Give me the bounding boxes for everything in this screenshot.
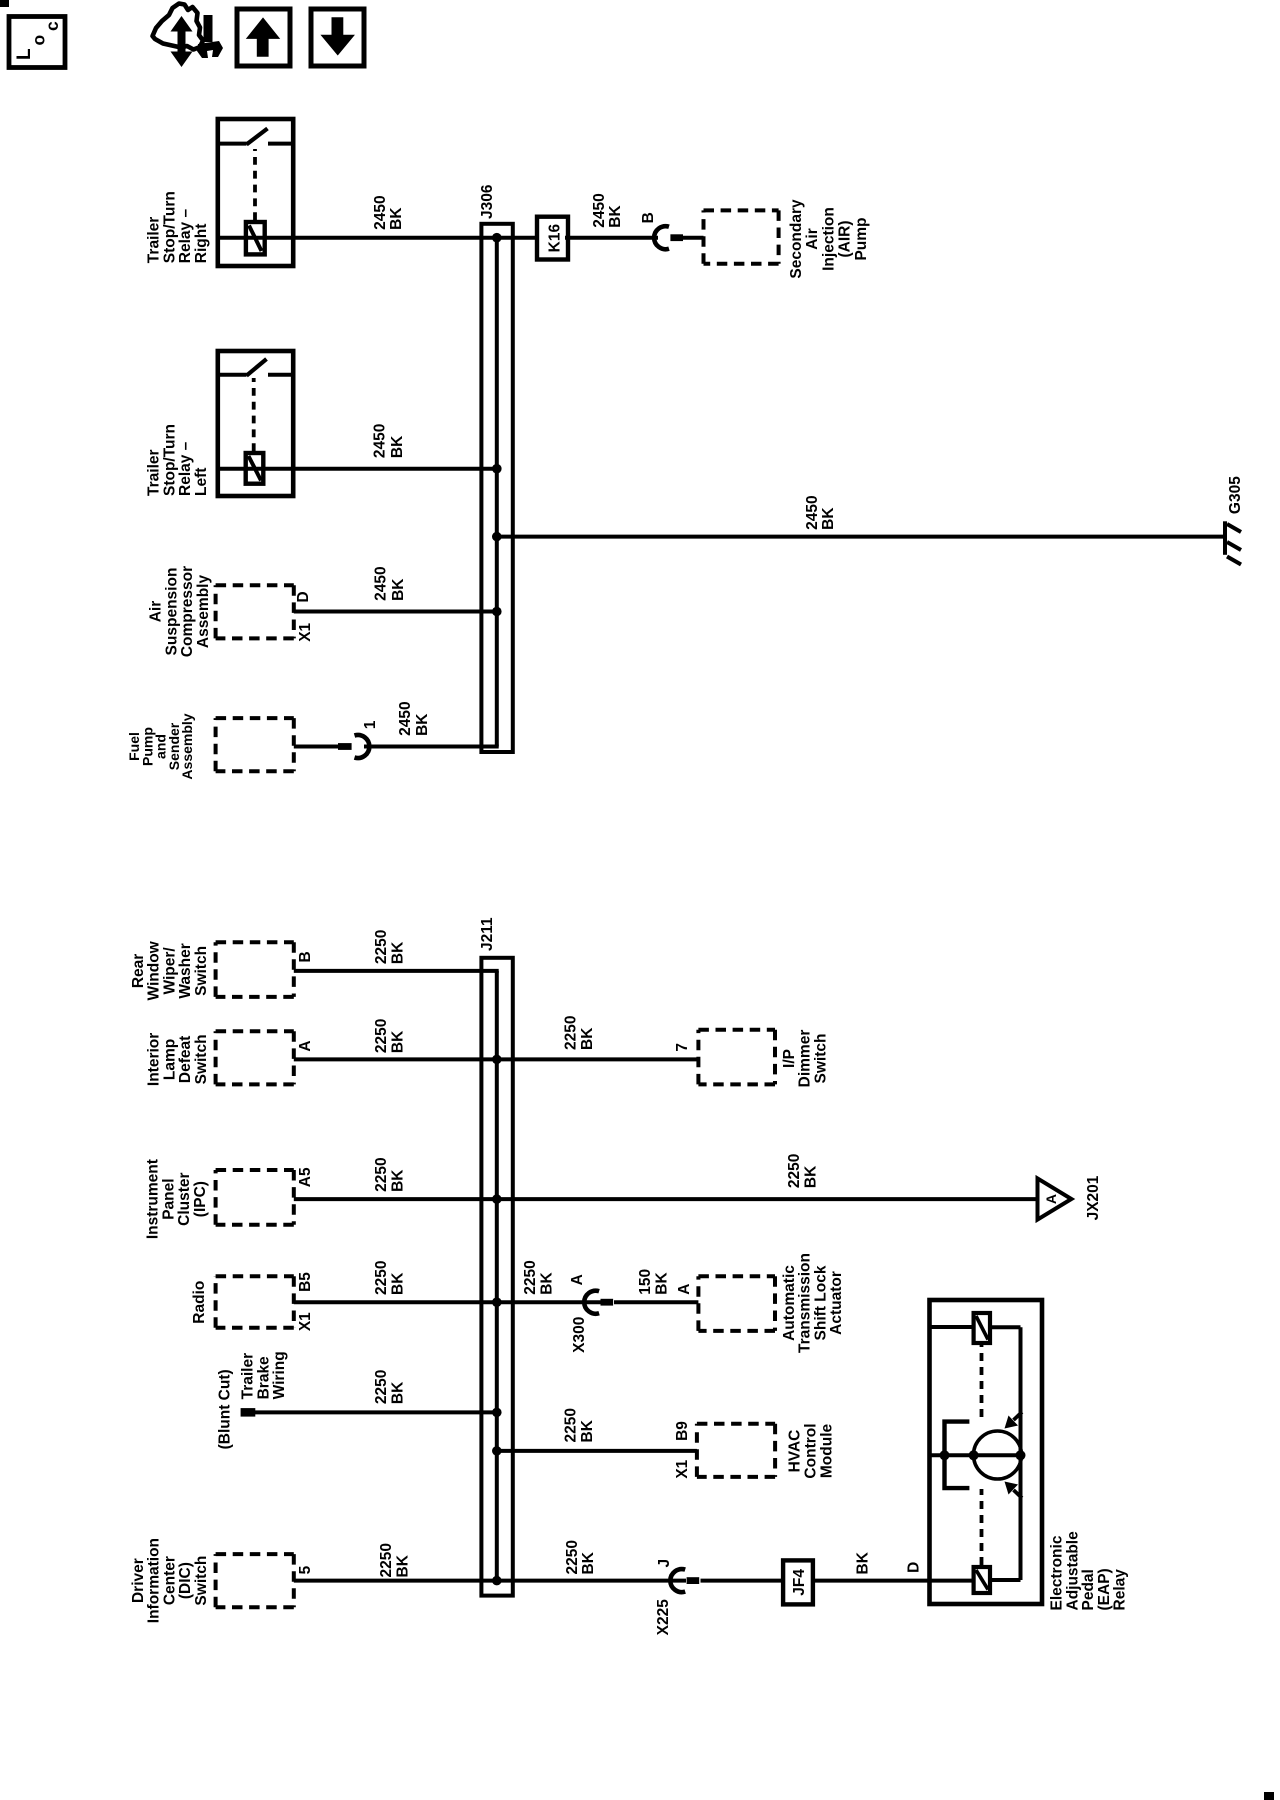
relay left contact line	[218, 373, 247, 377]
splice pack J211 outer box	[481, 958, 512, 1596]
relay Trailer Stop/Turn Relay - Left box	[218, 351, 293, 496]
svg-text:BK: BK	[395, 1554, 412, 1577]
wire 2250 BK J211 to HVAC control module	[497, 1449, 697, 1453]
svg-text:J: J	[656, 1559, 673, 1568]
node J211-DIC junction	[492, 1576, 502, 1586]
node J211 blunt cut junction	[492, 1408, 502, 1418]
svg-text:2250: 2250	[786, 1154, 803, 1188]
svg-text:Driver: Driver	[130, 1558, 147, 1603]
component Instrument Panel Cluster (IPC) box	[216, 1170, 294, 1225]
svg-text:(DIC): (DIC)	[177, 1562, 194, 1599]
svg-text:Pedal: Pedal	[1080, 1569, 1097, 1610]
svg-text:B: B	[297, 951, 314, 962]
svg-text:BK: BK	[854, 1551, 871, 1574]
svg-text:K16: K16	[547, 224, 564, 253]
svg-text:BK: BK	[579, 1027, 596, 1050]
svg-text:2250: 2250	[373, 1157, 390, 1191]
svg-text:Control: Control	[803, 1423, 820, 1478]
svg-text:Window: Window	[146, 940, 163, 1000]
svg-text:BK: BK	[607, 205, 624, 228]
node J211 radio junction	[492, 1297, 502, 1307]
svg-text:Trailer: Trailer	[146, 449, 163, 496]
svg-text:2450: 2450	[397, 701, 414, 735]
relay right switch blade	[247, 129, 268, 145]
node J306 ground junction	[492, 532, 502, 542]
svg-text:2450: 2450	[804, 495, 821, 529]
wire 2250 BK J211 to X300	[497, 1300, 601, 1304]
svg-text:Switch: Switch	[193, 1034, 210, 1084]
component Driver Information Center (DIC) Switch box	[216, 1554, 294, 1607]
svg-text:Secondary: Secondary	[788, 199, 805, 279]
node J306 relay left junction	[492, 464, 502, 474]
node J306 air suspension junction	[492, 607, 502, 617]
adjust icon (outline with up-down arrow and wrench)	[153, 4, 204, 50]
svg-text:2250: 2250	[373, 1261, 390, 1295]
svg-text:(AIR): (AIR)	[837, 220, 854, 257]
svg-text:Information: Information	[146, 1538, 163, 1623]
wire 2250 BK J211 to JX201	[497, 1197, 1038, 1201]
svg-text:Stop/Turn: Stop/Turn	[161, 191, 178, 263]
inline connector X300	[584, 1291, 599, 1314]
svg-text:Electronic: Electronic	[1049, 1535, 1066, 1610]
EAP relay bottom rail	[1019, 1327, 1023, 1580]
inline connector X225	[670, 1569, 685, 1592]
wire 2250 BK J211 to I/P dimmer switch	[497, 1057, 699, 1061]
fuse K16 box	[537, 217, 568, 260]
down arrow button	[311, 9, 364, 66]
svg-text:7: 7	[674, 1043, 691, 1052]
inline connector at AIR pump	[654, 226, 669, 249]
splice pack J306 bus line	[495, 237, 499, 747]
EAP relay emitter arrow right	[1014, 1412, 1023, 1420]
node J306 relay right junction	[492, 233, 502, 243]
svg-text:Defeat: Defeat	[177, 1036, 194, 1083]
relay right coil	[246, 222, 265, 254]
svg-text:Automatic: Automatic	[781, 1265, 798, 1341]
svg-text:o: o	[29, 35, 49, 46]
svg-text:JF4: JF4	[791, 1569, 808, 1596]
svg-text:BK: BK	[803, 1165, 820, 1188]
svg-text:B5: B5	[297, 1272, 314, 1292]
splice pack J306 outer box	[481, 224, 512, 752]
svg-text:Air: Air	[804, 228, 821, 250]
svg-text:2450: 2450	[372, 195, 389, 229]
connector JX201 triangle	[1038, 1178, 1072, 1219]
node EAP circle bottom junction	[1016, 1450, 1026, 1460]
svg-text:BK: BK	[539, 1272, 556, 1295]
svg-text:X1: X1	[674, 1459, 691, 1478]
svg-text:BK: BK	[390, 1381, 407, 1404]
node EAP bracket junction	[940, 1450, 950, 1460]
component I/P Dimmer Switch box	[698, 1030, 775, 1085]
wire to AIR pump	[683, 236, 704, 240]
svg-text:Assembly: Assembly	[179, 713, 195, 779]
page corner mark top-left	[0, 0, 9, 7]
svg-text:BK: BK	[654, 1272, 671, 1295]
svg-text:Brake: Brake	[255, 1356, 272, 1399]
svg-text:Lamp: Lamp	[161, 1039, 178, 1080]
svg-text:Interior: Interior	[146, 1033, 163, 1086]
svg-text:A: A	[1043, 1194, 1059, 1204]
svg-text:2250: 2250	[378, 1543, 395, 1577]
svg-text:2250: 2250	[562, 1016, 579, 1050]
wire 2250 BK DIC switch to J211	[294, 1579, 497, 1583]
svg-text:BK: BK	[820, 507, 837, 530]
svg-text:2450: 2450	[372, 424, 389, 458]
relay right linkage dashed	[253, 149, 257, 220]
svg-text:Instrument: Instrument	[145, 1159, 162, 1239]
component Automatic Transmission Shift Lock Actuator box	[698, 1276, 775, 1331]
ground symbol G305	[1225, 521, 1241, 564]
svg-text:BK: BK	[390, 1030, 407, 1053]
node J211 HVAC junction	[492, 1446, 502, 1456]
svg-text:c: c	[42, 21, 62, 31]
relay left switch blade	[247, 359, 267, 376]
wire K16 to connector B	[565, 236, 658, 240]
svg-text:BK: BK	[390, 1272, 407, 1295]
svg-text:2250: 2250	[373, 1019, 390, 1053]
EAP relay gate bracket	[945, 1422, 970, 1489]
node J211 interior lamp junction	[492, 1055, 502, 1065]
component Radio box	[216, 1276, 294, 1328]
component Secondary Air Injection (AIR) Pump box	[704, 210, 779, 263]
node EAP circle top junction	[969, 1450, 979, 1460]
wire 150 BK X300 to shift lock actuator	[614, 1300, 698, 1304]
svg-text:2250: 2250	[373, 930, 390, 964]
wire BK JF4 to EAP relay	[813, 1579, 930, 1583]
svg-text:JX201: JX201	[1085, 1175, 1102, 1220]
svg-text:X1: X1	[297, 622, 314, 641]
svg-text:(IPC): (IPC)	[192, 1181, 209, 1217]
svg-text:BK: BK	[390, 578, 407, 601]
EAP relay coil 1	[974, 1313, 990, 1343]
wire 2250 BK J211 to X225	[497, 1579, 686, 1583]
wire 2450 BK air suspension to J306	[294, 610, 497, 614]
svg-text:A: A	[676, 1283, 693, 1294]
relay left linkage dashed	[252, 378, 256, 451]
svg-text:X225: X225	[655, 1599, 672, 1636]
svg-text:Suspension: Suspension	[163, 568, 180, 656]
svg-text:Adjustable: Adjustable	[1064, 1531, 1081, 1611]
svg-text:2250: 2250	[562, 1408, 579, 1442]
component HVAC Control Module box	[697, 1424, 775, 1477]
svg-text:BK: BK	[580, 1551, 597, 1574]
EAP relay entry wire	[930, 1579, 974, 1583]
svg-text:Switch: Switch	[193, 946, 210, 996]
svg-text:Relay: Relay	[1112, 1569, 1129, 1611]
svg-text:Module: Module	[818, 1424, 835, 1479]
svg-text:BK: BK	[388, 207, 405, 230]
svg-text:(Blunt Cut): (Blunt Cut)	[217, 1369, 234, 1449]
svg-text:Shift Lock: Shift Lock	[812, 1265, 829, 1340]
svg-text:Relay –: Relay –	[177, 209, 194, 264]
EAP relay linkage dashed	[980, 1489, 984, 1565]
svg-text:I/P: I/P	[781, 1049, 798, 1068]
svg-text:Dimmer: Dimmer	[797, 1030, 814, 1088]
page corner mark bottom-right	[1264, 1792, 1274, 1800]
svg-text:D: D	[905, 1562, 922, 1573]
wire 2250 BK trailer brake wiring to J211	[252, 1410, 497, 1414]
svg-text:A: A	[297, 1040, 314, 1051]
svg-text:Center: Center	[161, 1556, 178, 1605]
svg-text:B9: B9	[674, 1421, 691, 1441]
svg-text:Trailer: Trailer	[240, 1353, 257, 1400]
wire 2450 BK relay left to J306	[218, 467, 497, 471]
svg-text:A: A	[569, 1274, 586, 1285]
svg-text:BK: BK	[414, 713, 431, 736]
wire 2450 BK relay right to J306	[218, 236, 497, 240]
svg-text:2250: 2250	[373, 1370, 390, 1404]
splice pack J211 bus line	[495, 971, 499, 1581]
svg-text:X300: X300	[571, 1317, 588, 1353]
svg-text:Washer: Washer	[177, 943, 194, 998]
svg-text:A5: A5	[297, 1167, 314, 1187]
EAP relay emitter arrow left	[1014, 1490, 1023, 1498]
svg-text:J211: J211	[479, 917, 496, 951]
svg-text:Assembly: Assembly	[195, 575, 212, 649]
svg-text:2450: 2450	[591, 193, 608, 227]
wire 2250 BK IPC to J211	[294, 1197, 497, 1201]
svg-text:Switch: Switch	[812, 1034, 829, 1084]
svg-text:Panel: Panel	[160, 1178, 177, 1219]
LOC hotspot box	[9, 17, 65, 68]
svg-text:Pump: Pump	[853, 217, 870, 260]
relay Electronic Adjustable Pedal (EAP) Relay box	[930, 1300, 1043, 1604]
component Rear Window Wiper/Washer Switch box	[216, 942, 294, 997]
svg-text:5: 5	[297, 1565, 314, 1574]
svg-text:Relay –: Relay –	[177, 441, 194, 496]
wire 2250 BK radio to J211	[294, 1300, 497, 1304]
svg-text:150: 150	[637, 1269, 654, 1295]
EAP relay coil 2	[974, 1567, 990, 1593]
svg-text:HVAC: HVAC	[787, 1430, 804, 1473]
svg-text:J306: J306	[479, 184, 496, 219]
relay left coil	[246, 453, 264, 484]
svg-text:G305: G305	[1227, 476, 1244, 514]
EAP relay center wire	[930, 1453, 1021, 1457]
svg-text:Injection: Injection	[820, 207, 837, 271]
svg-text:(EAP): (EAP)	[1096, 1568, 1113, 1610]
wire 2250 BK interior lamp defeat switch to J211	[294, 1057, 497, 1061]
node J211 IPC junction	[492, 1194, 502, 1204]
svg-text:Rear: Rear	[130, 954, 147, 988]
svg-text:1: 1	[362, 720, 379, 729]
EAP relay coil 1 feed wire	[930, 1325, 974, 1329]
svg-text:Left: Left	[193, 468, 210, 496]
svg-text:Transmission: Transmission	[797, 1253, 814, 1353]
wire 2450 BK J306 to K16	[497, 236, 540, 240]
svg-text:L: L	[14, 48, 35, 60]
svg-text:BK: BK	[389, 435, 406, 458]
svg-text:BK: BK	[579, 1419, 596, 1442]
EAP relay transistor circle	[974, 1431, 1022, 1479]
component Fuel Pump and Sender Assembly box	[216, 718, 294, 771]
svg-text:Air: Air	[148, 601, 165, 623]
svg-text:Actuator: Actuator	[828, 1271, 845, 1335]
up arrow button	[237, 9, 290, 66]
wire 2450 BK J306 to G305	[497, 535, 1225, 539]
component Interior Lamp Defeat Switch box	[216, 1031, 294, 1084]
svg-text:Cluster: Cluster	[176, 1172, 193, 1225]
svg-text:Radio: Radio	[191, 1281, 208, 1324]
svg-text:B: B	[640, 212, 657, 223]
svg-text:Stop/Turn: Stop/Turn	[161, 424, 178, 496]
svg-text:Right: Right	[193, 224, 210, 264]
wire 2450 BK connector to J306	[364, 745, 499, 749]
svg-text:Wiper/: Wiper/	[161, 947, 178, 995]
svg-text:Wiring: Wiring	[271, 1351, 288, 1399]
svg-text:X1: X1	[297, 1312, 314, 1331]
svg-text:Switch: Switch	[193, 1556, 210, 1606]
fuse JF4 box	[783, 1560, 813, 1604]
svg-text:BK: BK	[390, 1169, 407, 1192]
wire BK X225 to JF4	[701, 1579, 784, 1583]
blunt cut end symbol	[241, 1408, 256, 1417]
svg-text:2250: 2250	[564, 1540, 581, 1574]
relay right contact line	[218, 142, 247, 146]
component Air Suspension Compressor Assembly box	[216, 585, 294, 638]
svg-text:Compressor: Compressor	[179, 566, 196, 657]
wire 2250 BK rear window switch to J211	[294, 969, 499, 973]
relay Trailer Stop/Turn Relay - Right box	[218, 119, 293, 266]
svg-text:BK: BK	[390, 941, 407, 964]
inline connector at fuel pump	[338, 743, 352, 750]
wire fuel pump to connector	[294, 745, 340, 749]
svg-text:2450: 2450	[373, 566, 390, 600]
svg-text:D: D	[295, 591, 312, 602]
svg-text:2250: 2250	[522, 1260, 539, 1294]
svg-text:Trailer: Trailer	[146, 217, 163, 264]
